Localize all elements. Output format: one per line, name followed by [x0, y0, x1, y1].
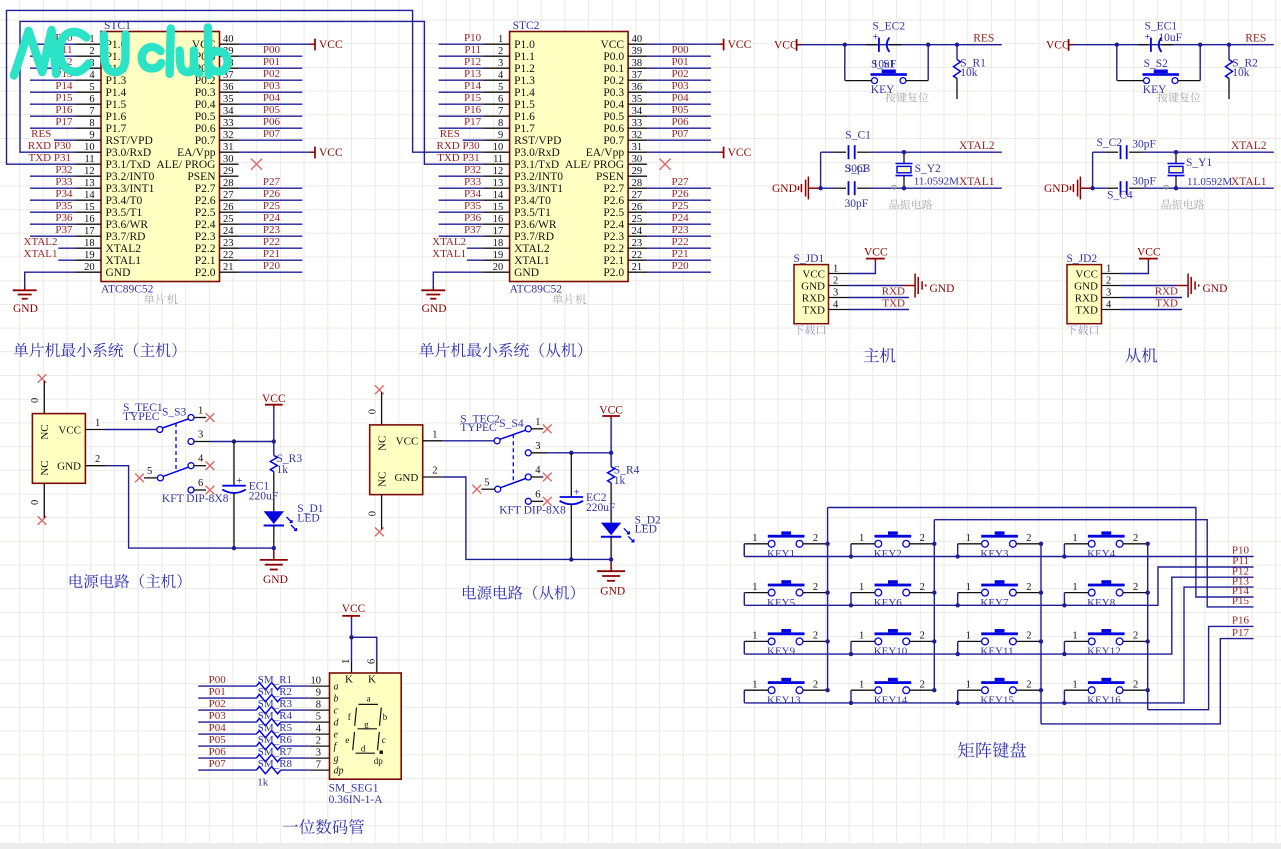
svg-text:dp: dp: [334, 766, 344, 777]
svg-text:P2.0: P2.0: [603, 267, 624, 279]
svg-text:P2.2: P2.2: [195, 243, 216, 255]
svg-text:20: 20: [84, 262, 95, 273]
svg-text:P3.6/WR: P3.6/WR: [514, 219, 557, 231]
svg-text:P12: P12: [464, 56, 481, 68]
svg-text:P13: P13: [464, 68, 482, 80]
svg-text:P0.7: P0.7: [603, 135, 624, 147]
svg-text:2: 2: [920, 582, 925, 593]
svg-text:7: 7: [89, 106, 94, 117]
svg-text:P24: P24: [263, 212, 281, 224]
svg-text:36: 36: [632, 82, 643, 93]
svg-text:2: 2: [498, 46, 503, 57]
svg-text:1: 1: [95, 418, 100, 429]
svg-text:10: 10: [84, 142, 95, 153]
svg-text:27: 27: [632, 190, 643, 201]
svg-text:STC2: STC2: [513, 20, 540, 32]
svg-text:P14: P14: [464, 80, 482, 92]
svg-text:GND: GND: [263, 574, 288, 586]
svg-text:2: 2: [1026, 582, 1031, 593]
svg-text:RES: RES: [31, 128, 51, 140]
svg-text:1k: 1k: [614, 475, 626, 487]
svg-text:33: 33: [223, 118, 234, 129]
svg-text:KEY2: KEY2: [874, 548, 902, 560]
svg-text:+: +: [574, 487, 580, 498]
svg-text:P36: P36: [464, 212, 482, 224]
svg-text:3: 3: [535, 441, 540, 452]
svg-text:31: 31: [632, 142, 643, 153]
svg-text:P3.1/TxD: P3.1/TxD: [106, 159, 151, 171]
svg-text:S_EC1: S_EC1: [1145, 20, 1178, 32]
svg-text:1k: 1k: [257, 776, 269, 788]
svg-text:a: a: [334, 682, 339, 693]
svg-text:P0.4: P0.4: [195, 99, 216, 111]
svg-text:1: 1: [432, 429, 437, 440]
svg-text:P2.1: P2.1: [603, 255, 624, 267]
svg-text:EA/Vpp: EA/Vpp: [177, 147, 216, 159]
svg-text:e: e: [334, 730, 339, 741]
svg-text:VCC: VCC: [396, 436, 419, 448]
svg-text:1: 1: [859, 679, 864, 690]
svg-text:ALE/ PROG: ALE/ PROG: [565, 159, 624, 171]
svg-text:2: 2: [432, 466, 437, 477]
svg-text:TXD P31: TXD P31: [437, 152, 479, 164]
svg-text:1: 1: [198, 406, 203, 417]
svg-text:8: 8: [316, 700, 321, 711]
svg-text:GND: GND: [1044, 183, 1069, 195]
svg-text:1: 1: [1072, 533, 1077, 544]
svg-text:S_Y1: S_Y1: [1186, 157, 1212, 169]
svg-text:GND: GND: [106, 267, 131, 279]
svg-text:GND: GND: [394, 472, 418, 484]
svg-text:SM_R2: SM_R2: [258, 686, 292, 698]
svg-text:VCC: VCC: [319, 39, 343, 51]
svg-text:2: 2: [1026, 631, 1031, 642]
svg-text:S_EC2: S_EC2: [873, 20, 906, 32]
svg-text:VCC: VCC: [802, 268, 825, 280]
svg-text:2: 2: [920, 631, 925, 642]
svg-text:4: 4: [89, 70, 95, 81]
svg-text:25: 25: [632, 214, 643, 225]
svg-text:P33: P33: [464, 176, 482, 188]
svg-text:2: 2: [1026, 533, 1031, 544]
svg-text:P15: P15: [464, 92, 482, 104]
svg-text:P1.0: P1.0: [514, 39, 535, 51]
svg-text:2: 2: [95, 454, 100, 465]
svg-text:P17: P17: [1232, 627, 1250, 639]
svg-text:EA/Vpp: EA/Vpp: [586, 147, 625, 159]
svg-text:P32: P32: [464, 164, 481, 176]
svg-text:P0.3: P0.3: [603, 87, 624, 99]
svg-text:6: 6: [89, 94, 94, 105]
svg-text:SM_R5: SM_R5: [258, 722, 293, 734]
svg-text:26: 26: [223, 202, 234, 213]
svg-text:3: 3: [498, 58, 503, 69]
svg-text:S_C1: S_C1: [845, 130, 871, 142]
svg-text:SM_SEG1: SM_SEG1: [329, 783, 379, 795]
svg-text:P00: P00: [263, 44, 281, 56]
svg-text:1: 1: [1072, 631, 1077, 642]
svg-text:P2.3: P2.3: [195, 231, 216, 243]
svg-text:TXD: TXD: [1155, 298, 1178, 310]
svg-text:P1.4: P1.4: [514, 87, 535, 99]
svg-text:P2.5: P2.5: [603, 207, 624, 219]
svg-text:P03: P03: [209, 710, 227, 722]
svg-text:GND: GND: [514, 267, 539, 279]
svg-text:P06: P06: [209, 746, 227, 758]
svg-text:XTAL1: XTAL1: [959, 176, 995, 188]
svg-text:P20: P20: [671, 260, 689, 272]
svg-text:1: 1: [535, 417, 540, 428]
svg-text:P07: P07: [263, 128, 281, 140]
svg-text:SM_R1: SM_R1: [258, 674, 292, 686]
svg-text:1: 1: [966, 631, 971, 642]
svg-text:35: 35: [223, 94, 234, 105]
svg-text:KEY1: KEY1: [767, 548, 795, 560]
svg-text:GND: GND: [422, 303, 447, 315]
svg-text:P04: P04: [671, 92, 689, 104]
svg-text:32: 32: [223, 130, 234, 141]
svg-text:28: 28: [632, 178, 643, 189]
svg-text:26: 26: [632, 202, 643, 213]
svg-text:0.36IN-1-A: 0.36IN-1-A: [329, 794, 384, 806]
svg-text:XTAL2: XTAL2: [514, 243, 550, 255]
svg-text:RST/VPD: RST/VPD: [514, 135, 561, 147]
svg-text:P3.6/WR: P3.6/WR: [106, 219, 149, 231]
svg-text:P2.6: P2.6: [195, 195, 216, 207]
svg-text:GND: GND: [600, 585, 625, 597]
svg-text:P03: P03: [671, 80, 689, 92]
svg-text:P0.1: P0.1: [603, 63, 624, 75]
svg-text:P26: P26: [671, 188, 689, 200]
svg-text:1: 1: [966, 582, 971, 593]
svg-text:P17: P17: [464, 116, 482, 128]
svg-text:P26: P26: [263, 188, 281, 200]
svg-text:VCC: VCC: [319, 147, 343, 159]
svg-text:RES: RES: [440, 128, 460, 140]
svg-text:14: 14: [493, 190, 504, 201]
svg-text:1: 1: [966, 679, 971, 690]
svg-text:4: 4: [833, 300, 839, 311]
svg-text:VCC: VCC: [774, 40, 798, 52]
svg-text:21: 21: [632, 262, 643, 273]
svg-text:S_S4: S_S4: [499, 418, 524, 430]
svg-text:5: 5: [147, 466, 152, 477]
svg-text:KEY16: KEY16: [1087, 695, 1121, 707]
svg-text:31: 31: [223, 142, 234, 153]
svg-text:S_C2: S_C2: [1097, 137, 1123, 149]
svg-text:P1.3: P1.3: [514, 75, 535, 87]
svg-text:P01: P01: [671, 56, 688, 68]
svg-text:P35: P35: [55, 200, 73, 212]
svg-text:VCC: VCC: [342, 603, 366, 615]
svg-text:7: 7: [316, 760, 321, 771]
svg-text:P2.1: P2.1: [195, 255, 216, 267]
svg-text:11.0592M: 11.0592M: [1187, 176, 1232, 188]
svg-text:28: 28: [223, 178, 234, 189]
svg-text:P3.3/INT1: P3.3/INT1: [106, 183, 155, 195]
svg-text:P2.6: P2.6: [603, 195, 624, 207]
svg-text:38: 38: [632, 58, 643, 69]
svg-text:220uF: 220uF: [586, 502, 615, 514]
svg-text:1: 1: [1072, 679, 1077, 690]
svg-text:dp: dp: [374, 756, 384, 766]
svg-text:ATC89C52: ATC89C52: [510, 283, 563, 295]
svg-text:P14: P14: [55, 80, 73, 92]
svg-text:LED: LED: [635, 524, 657, 536]
svg-text:29: 29: [632, 166, 643, 177]
svg-text:KEY8: KEY8: [1087, 597, 1116, 609]
svg-text:10: 10: [311, 676, 322, 687]
svg-text:g: g: [334, 754, 339, 765]
svg-text:P22: P22: [671, 236, 688, 248]
svg-text:P1.3: P1.3: [106, 75, 127, 87]
svg-text:15: 15: [493, 202, 504, 213]
svg-text:P0.7: P0.7: [195, 135, 216, 147]
svg-text:P1.7: P1.7: [106, 123, 127, 135]
svg-text:P24: P24: [671, 212, 689, 224]
svg-text:XTAL1: XTAL1: [24, 248, 58, 260]
svg-text:P11: P11: [464, 44, 481, 56]
svg-text:KFT DIP-8X8: KFT DIP-8X8: [162, 493, 229, 505]
svg-text:GND: GND: [772, 183, 797, 195]
svg-text:RXD: RXD: [882, 286, 905, 298]
svg-text:f: f: [348, 712, 351, 722]
svg-text:NC: NC: [376, 436, 388, 451]
svg-text:40: 40: [223, 34, 234, 45]
svg-text:P1.7: P1.7: [514, 123, 535, 135]
svg-text:P37: P37: [55, 224, 73, 236]
svg-text:32: 32: [632, 130, 643, 141]
svg-text:2: 2: [1133, 631, 1138, 642]
svg-text:VCC: VCC: [262, 393, 286, 405]
svg-text:P3.1/TxD: P3.1/TxD: [514, 159, 559, 171]
svg-text:22: 22: [223, 250, 234, 261]
svg-text:24: 24: [632, 226, 643, 237]
svg-text:11: 11: [84, 154, 94, 165]
svg-text:10k: 10k: [960, 67, 978, 79]
svg-text:c: c: [382, 735, 386, 745]
svg-text:P33: P33: [55, 176, 73, 188]
svg-text:VCC: VCC: [1046, 40, 1070, 52]
svg-text:30pF: 30pF: [846, 163, 870, 175]
svg-text:0: 0: [367, 511, 378, 516]
svg-text:RXD P30: RXD P30: [28, 140, 72, 152]
svg-text:4: 4: [535, 465, 541, 476]
svg-text:NC: NC: [39, 460, 51, 475]
svg-text:+: +: [237, 476, 243, 487]
svg-text:1: 1: [752, 679, 757, 690]
svg-text:P3.7/RD: P3.7/RD: [106, 231, 146, 243]
svg-text:2: 2: [316, 736, 321, 747]
svg-text:P0.3: P0.3: [195, 87, 216, 99]
svg-text:18: 18: [493, 238, 504, 249]
svg-text:8: 8: [89, 118, 94, 129]
svg-text:P3.4/T0: P3.4/T0: [514, 195, 551, 207]
svg-text:35: 35: [632, 94, 643, 105]
svg-text:ALE/ PROG: ALE/ PROG: [156, 159, 215, 171]
svg-text:b: b: [334, 694, 339, 705]
svg-text:+: +: [873, 32, 879, 43]
svg-text:P27: P27: [263, 176, 281, 188]
svg-text:1k: 1k: [277, 464, 289, 476]
svg-text:15: 15: [84, 202, 95, 213]
svg-text:P16: P16: [55, 104, 73, 116]
svg-text:2: 2: [1026, 679, 1031, 690]
svg-text:3: 3: [1106, 288, 1111, 299]
svg-text:6: 6: [535, 489, 540, 500]
svg-text:30pF: 30pF: [845, 198, 869, 210]
svg-text:TYPEC: TYPEC: [460, 422, 497, 434]
svg-text:GND: GND: [57, 461, 81, 473]
svg-text:KEY6: KEY6: [874, 597, 903, 609]
svg-text:P1.2: P1.2: [514, 63, 535, 75]
svg-text:1: 1: [859, 631, 864, 642]
svg-text:9: 9: [89, 130, 94, 141]
svg-text:TXD: TXD: [1075, 304, 1098, 316]
svg-text:2: 2: [833, 276, 838, 287]
svg-text:10: 10: [493, 142, 504, 153]
svg-text:33: 33: [632, 118, 643, 129]
svg-text:10uF: 10uF: [873, 59, 897, 71]
svg-text:GND: GND: [801, 280, 825, 292]
svg-text:XTAL2: XTAL2: [1231, 140, 1267, 152]
svg-text:GND: GND: [930, 283, 955, 295]
svg-text:1: 1: [833, 264, 838, 275]
svg-text:0: 0: [367, 409, 378, 414]
svg-text:P25: P25: [263, 200, 281, 212]
svg-text:S_Y2: S_Y2: [915, 163, 941, 175]
svg-text:39: 39: [632, 46, 643, 57]
svg-text:TXD: TXD: [802, 304, 825, 316]
svg-text:P00: P00: [209, 674, 227, 686]
svg-text:2: 2: [813, 679, 818, 690]
svg-text:P2.7: P2.7: [195, 183, 216, 195]
svg-text:SM_R4: SM_R4: [258, 710, 293, 722]
svg-text:e: e: [345, 735, 349, 745]
svg-text:P0.4: P0.4: [603, 99, 624, 111]
svg-text:K: K: [368, 674, 376, 686]
svg-text:19: 19: [84, 250, 95, 261]
svg-text:11.0592M: 11.0592M: [914, 176, 959, 188]
svg-text:TYPEC: TYPEC: [123, 411, 160, 423]
svg-text:S_C4: S_C4: [1107, 190, 1133, 202]
svg-text:+: +: [1145, 32, 1151, 43]
svg-text:3: 3: [316, 748, 321, 759]
svg-text:VCC: VCC: [728, 147, 752, 159]
svg-text:14: 14: [84, 190, 95, 201]
svg-text:XTAL1: XTAL1: [514, 255, 550, 267]
svg-text:4: 4: [498, 70, 504, 81]
svg-text:P00: P00: [671, 44, 689, 56]
svg-text:13: 13: [493, 178, 504, 189]
svg-text:P3.7/RD: P3.7/RD: [514, 231, 554, 243]
svg-text:36: 36: [223, 82, 234, 93]
svg-text:KEY13: KEY13: [767, 695, 801, 707]
svg-text:3: 3: [833, 288, 838, 299]
svg-text:P3.2/INT0: P3.2/INT0: [106, 171, 155, 183]
svg-text:S_JD1: S_JD1: [794, 253, 825, 265]
svg-text:17: 17: [493, 226, 504, 237]
svg-text:23: 23: [223, 238, 234, 249]
svg-text:2: 2: [1133, 533, 1138, 544]
svg-text:9: 9: [316, 688, 321, 699]
svg-text:2: 2: [1133, 582, 1138, 593]
svg-text:TXD P31: TXD P31: [29, 152, 71, 164]
svg-text:40: 40: [632, 34, 643, 45]
svg-text:P2.0: P2.0: [195, 267, 216, 279]
svg-text:27: 27: [223, 190, 234, 201]
svg-text:2: 2: [813, 582, 818, 593]
svg-text:1: 1: [859, 533, 864, 544]
svg-text:P05: P05: [263, 104, 281, 116]
svg-text:P23: P23: [263, 224, 281, 236]
svg-text:P3.0/RxD: P3.0/RxD: [514, 147, 560, 159]
svg-text:NC: NC: [376, 472, 388, 487]
svg-text:VCC: VCC: [58, 424, 81, 436]
svg-text:P0.2: P0.2: [603, 75, 624, 87]
svg-text:VCC: VCC: [599, 404, 623, 416]
svg-text:P3.5/T1: P3.5/T1: [106, 207, 143, 219]
svg-text:KEY12: KEY12: [1087, 646, 1121, 658]
svg-text:P05: P05: [671, 104, 689, 116]
svg-text:P25: P25: [671, 200, 689, 212]
svg-text:22: 22: [632, 250, 643, 261]
svg-text:24: 24: [223, 226, 234, 237]
svg-text:PSEN: PSEN: [187, 171, 216, 183]
svg-text:P0.0: P0.0: [603, 51, 624, 63]
svg-text:TXD: TXD: [882, 298, 905, 310]
svg-text:29: 29: [223, 166, 234, 177]
svg-text:2: 2: [920, 533, 925, 544]
svg-text:NC: NC: [39, 424, 51, 439]
svg-text:K: K: [345, 674, 353, 686]
svg-text:37: 37: [632, 70, 643, 81]
svg-text:P3.3/INT1: P3.3/INT1: [514, 183, 563, 195]
svg-text:S_JD2: S_JD2: [1067, 253, 1098, 265]
svg-text:P27: P27: [671, 176, 689, 188]
svg-text:P01: P01: [263, 56, 280, 68]
svg-text:5: 5: [484, 477, 489, 488]
svg-text:16: 16: [84, 214, 95, 225]
svg-text:7: 7: [498, 106, 503, 117]
svg-text:1: 1: [498, 34, 503, 45]
svg-text:KEY14: KEY14: [874, 695, 908, 707]
svg-text:KEY15: KEY15: [980, 695, 1014, 707]
svg-text:VCC: VCC: [728, 39, 752, 51]
svg-text:17: 17: [84, 226, 95, 237]
svg-text:P02: P02: [263, 68, 280, 80]
svg-text:2: 2: [920, 679, 925, 690]
svg-text:10uF: 10uF: [1158, 32, 1182, 44]
svg-text:VCC: VCC: [1075, 268, 1098, 280]
svg-text:0: 0: [30, 398, 41, 403]
svg-text:VCC: VCC: [600, 39, 624, 51]
svg-text:P34: P34: [464, 188, 482, 200]
svg-text:KEY11: KEY11: [980, 646, 1013, 658]
svg-text:P2.4: P2.4: [195, 219, 216, 231]
svg-text:2: 2: [1133, 679, 1138, 690]
svg-text:P1.6: P1.6: [106, 111, 127, 123]
svg-text:6: 6: [498, 94, 503, 105]
svg-text:RXD: RXD: [1155, 286, 1178, 298]
svg-text:4: 4: [1106, 300, 1112, 311]
svg-text:KEY4: KEY4: [1087, 548, 1116, 560]
svg-text:P3.4/T0: P3.4/T0: [106, 195, 143, 207]
svg-text:1: 1: [859, 582, 864, 593]
svg-text:P22: P22: [263, 236, 280, 248]
svg-text:P32: P32: [55, 164, 72, 176]
svg-text:a: a: [367, 694, 371, 704]
